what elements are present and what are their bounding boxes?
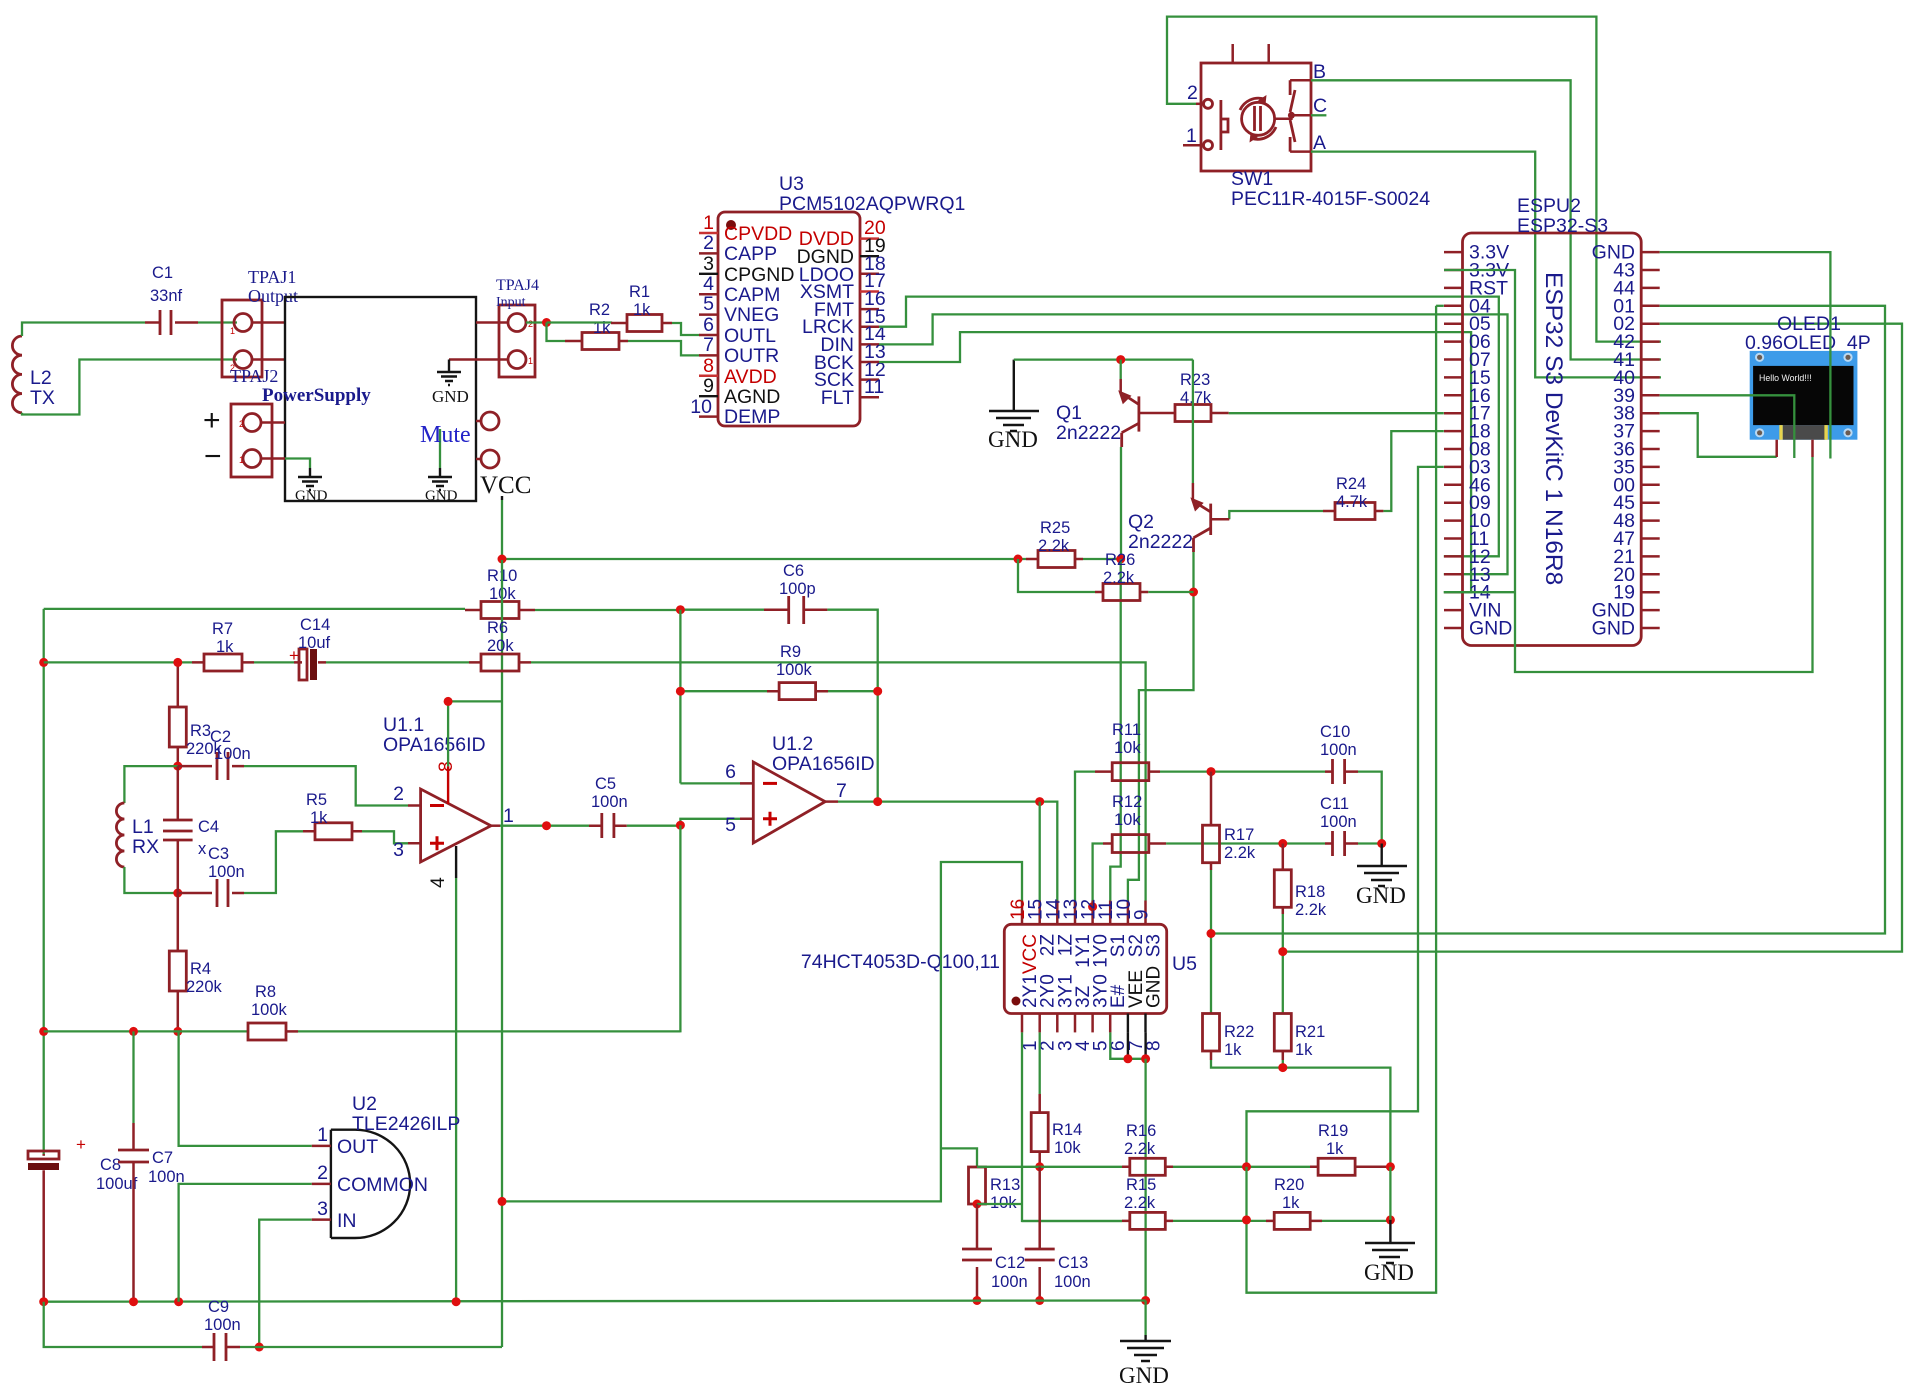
svg-text:FLT: FLT: [821, 387, 854, 409]
svg-text:TPAJ2: TPAJ2: [230, 366, 278, 386]
wire left trunk vertical (R10 row to C8): [43, 609, 45, 1156]
svg-text:1k: 1k: [633, 301, 651, 319]
ESP32 right pin 20: [1613, 564, 1659, 586]
U5 pin 2 2Y0: [1038, 974, 1059, 1051]
svg-text:OUTL: OUTL: [724, 325, 776, 347]
node dot TPAJ4/R2/R1: [542, 318, 551, 327]
SW1 pin B: [1290, 61, 1326, 83]
svg-text:2: 2: [703, 232, 714, 254]
svg-text:1: 1: [239, 455, 244, 465]
wire ESP32 pin 39 to OLED pin2: [1660, 395, 1795, 458]
wire R18 bottom to R21 top: [1282, 914, 1284, 1013]
U5 pin 11 S1: [1096, 900, 1129, 957]
inductor L1: [116, 803, 159, 867]
SW1 contact A: [1290, 120, 1295, 152]
U3 pin 15 LRCK: [802, 306, 886, 338]
ESP32 right pin 19: [1613, 582, 1659, 604]
svg-text:R21: R21: [1295, 1023, 1325, 1041]
svg-text:100n: 100n: [1320, 741, 1357, 759]
wire R16 right to R19: [1173, 1166, 1310, 1168]
ESP32 left pin 13: [1444, 564, 1491, 586]
svg-text:3: 3: [703, 253, 714, 275]
svg-text:1k: 1k: [1224, 1041, 1242, 1059]
wire R24 to ESP32 pin 18: [1383, 431, 1443, 511]
node R4 bottom R8 row: [173, 1027, 182, 1036]
svg-text:100n: 100n: [1054, 1273, 1091, 1291]
ESP32 right pin 44: [1613, 277, 1659, 299]
ESP32 right pin 37: [1613, 421, 1659, 443]
resistor R9: [680, 643, 877, 700]
ESP32 right pin 01: [1613, 295, 1659, 317]
svg-text:PowerSupply: PowerSupply: [262, 385, 371, 406]
resistor R5: [303, 791, 362, 840]
bottom rail: [44, 1301, 1146, 1302]
svg-text:TX: TX: [30, 387, 55, 409]
svg-text:R22: R22: [1224, 1023, 1254, 1041]
module box PowerSupply: [285, 297, 476, 501]
U5 pin 13 1Y1: [1061, 899, 1094, 968]
svg-text:CPVDD: CPVDD: [724, 223, 792, 245]
U3 pin 13 BCK: [814, 341, 886, 374]
ESP32 body: [1463, 195, 1642, 646]
node pin12 column: [1088, 902, 1097, 911]
ESP32 right pin 41: [1613, 349, 1659, 371]
svg-text:CAPM: CAPM: [724, 284, 780, 306]
wire R17 bottom to R22 top: [1210, 870, 1212, 1013]
svg-text:1k: 1k: [310, 809, 328, 827]
svg-text:COMMON: COMMON: [337, 1174, 428, 1196]
svg-text:GND: GND: [295, 488, 328, 504]
wire U1.2 out row to U5 pins 15/14: [838, 802, 1057, 901]
svg-text:R8: R8: [255, 983, 276, 1001]
capacitor C6: [680, 562, 827, 624]
node C3/C4 bottom row: [173, 889, 182, 898]
node left trunk R8 row: [39, 1027, 48, 1036]
capacitor C5: [589, 775, 628, 838]
wire ESP32 pin 03 to bottom node: [1247, 467, 1444, 1167]
wire Q2 collector down: [1128, 552, 1194, 901]
U3 pin 16 FMT: [814, 288, 886, 321]
wire U1.1 pin8 to VCC trunk: [448, 701, 502, 766]
svg-text:1: 1: [703, 212, 714, 234]
svg-text:S3: S3: [1144, 934, 1165, 957]
node pin15 branch: [1035, 797, 1044, 806]
node R17 bottom row: [1207, 929, 1216, 938]
svg-text:100p: 100p: [779, 580, 816, 598]
capacitor C14 polarized: [289, 616, 331, 680]
wire R13 bottom jog to R15 row: [977, 1203, 1022, 1205]
svg-text:C9: C9: [208, 1298, 229, 1316]
svg-text:100k: 100k: [251, 1001, 288, 1019]
wire R11 left to U5 pin13: [1075, 772, 1095, 901]
wire C2 right to U1.1 pin2: [244, 766, 408, 805]
node rail U1.1 pin4: [452, 1297, 461, 1306]
ESP32 right pin 42: [1613, 331, 1659, 353]
svg-text:5: 5: [703, 293, 714, 315]
wire R5 to U1.1 pin3: [362, 831, 408, 843]
U5 pin 1 2Y1: [1020, 974, 1041, 1051]
U3 pin 4 CAPM: [699, 273, 780, 306]
svg-text:PCM5102AQPWRQ1: PCM5102AQPWRQ1: [779, 193, 965, 215]
svg-text:C7: C7: [152, 1149, 173, 1167]
wire Q1 net down through R26/R11 to U5 pin 11: [1110, 559, 1120, 901]
svg-text:100n: 100n: [208, 863, 245, 881]
ESP32 right pin 36: [1613, 439, 1659, 461]
wire R15 row: [1022, 1220, 1122, 1221]
svg-text:AGND: AGND: [724, 386, 780, 408]
svg-text:U3: U3: [779, 173, 804, 195]
svg-text:GND: GND: [1469, 618, 1512, 640]
wire pin04 row: [1436, 305, 1444, 307]
svg-text:OPA1656ID: OPA1656ID: [383, 734, 486, 756]
OLED pin 1 stub: [1775, 440, 1778, 457]
svg-text:ESP32-S3: ESP32-S3: [1517, 215, 1608, 237]
capacitor C2: [178, 728, 251, 780]
U3 pin 7 OUTR: [699, 334, 779, 367]
ESP32 left pin 3.3V: [1444, 242, 1509, 264]
wire R23 to ESP32 pin17 and pin04 riser: [1229, 412, 1444, 414]
svg-text:20k: 20k: [487, 637, 514, 655]
wire R23 center vertical (GND rail to Q2 emitter): [1192, 360, 1194, 483]
svg-text:+: +: [76, 1135, 86, 1154]
wire R7 row: [44, 661, 192, 663]
node left trunk R7 row: [39, 658, 48, 667]
svg-text:R2: R2: [589, 301, 610, 319]
svg-text:GND: GND: [1356, 883, 1406, 908]
U5 pin 5 3Y0: [1091, 974, 1112, 1051]
wire LRCK trunk to ESP32 pin 12: [879, 297, 1499, 557]
svg-text:Mute: Mute: [420, 422, 471, 448]
U5 pin 10 S2: [1114, 899, 1147, 957]
svg-text:10k: 10k: [1114, 811, 1141, 829]
wire VCC trunk through R10/R6 down: [501, 560, 503, 1347]
svg-text:11: 11: [864, 376, 884, 398]
svg-text:VNEG: VNEG: [724, 304, 779, 326]
node VCC trunk bottom: [498, 1197, 507, 1206]
svg-text:C6: C6: [783, 562, 804, 580]
wire U1.1 out to C5: [500, 825, 589, 827]
wire E#/VEE/GND join: [1110, 1032, 1145, 1058]
capacitor C10: [1320, 723, 1358, 784]
wire ESP32 pin 01 to R17 node: [1211, 306, 1885, 934]
svg-text:R24: R24: [1336, 475, 1366, 493]
svg-text:ESP32 S3 DevKitC 1 N16R8: ESP32 S3 DevKitC 1 N16R8: [1540, 272, 1567, 585]
svg-text:6: 6: [725, 761, 736, 783]
SW1 rotary circle: [1240, 95, 1276, 143]
ESP32 right pin 35: [1613, 456, 1659, 478]
wire VCC row to R25: [502, 558, 1026, 560]
wire ESP32 3.3V#2 to OLED pin3 route: [1444, 270, 1813, 672]
wire pin15 branch down: [1039, 802, 1041, 901]
wire R6 right to U5 pin9 S3: [531, 662, 1146, 900]
svg-text:220k: 220k: [186, 978, 223, 996]
ESP32 left pin 12: [1444, 546, 1491, 568]
svg-text:U1.2: U1.2: [772, 733, 813, 755]
U3 pin 1 CPVDD: [699, 212, 792, 245]
svg-text:100uf: 100uf: [96, 1175, 138, 1193]
U3 pin 12 SCK: [814, 359, 886, 391]
wire TPAJ4 pin2 to node: [526, 321, 547, 323]
wire C9 to VCC trunk bottom: [240, 1346, 502, 1348]
svg-text:33nf: 33nf: [150, 287, 183, 305]
node Q1 emitter: [1116, 355, 1125, 364]
resistor R11: [1095, 721, 1160, 781]
capacitor C8 polarized: [28, 1135, 138, 1302]
U3 pin 20 DVDD: [799, 217, 886, 250]
wire SW1 A to ESP32 pin 40: [1311, 152, 1661, 378]
svg-text:1: 1: [230, 326, 235, 336]
svg-text:PEC11R-4015F-S0024: PEC11R-4015F-S0024: [1231, 188, 1430, 210]
U2 pin3 IN: [312, 1198, 357, 1232]
SW1 pin 2: [1187, 82, 1213, 108]
op-amp U1.2: [725, 733, 874, 843]
svg-text:2n2222: 2n2222: [1128, 531, 1193, 553]
resistor R18: [1274, 844, 1327, 920]
ESP32 right pin GND: [1592, 242, 1660, 264]
node R13 bottom: [973, 1200, 982, 1209]
svg-text:3: 3: [393, 839, 404, 861]
ground C11: [1356, 844, 1407, 909]
resistor R26: [1095, 551, 1148, 601]
SW1 C node dot: [1288, 112, 1295, 119]
node C9 right: [255, 1343, 264, 1352]
node C13 bottom rail: [1035, 1296, 1044, 1305]
resistor R12: [1103, 793, 1166, 853]
node R25 left: [1014, 555, 1023, 564]
node R16/R19: [1242, 1162, 1251, 1171]
wire BCK trunk to ESP32 pin 14: [879, 332, 1471, 592]
wire L1 bottom to C3 row: [124, 867, 177, 893]
capacitor C4: [163, 766, 219, 893]
node R17 top: [1207, 767, 1216, 776]
svg-text:1k: 1k: [216, 638, 234, 656]
wire GND rail to Q1 emitter and Q2 emitter column: [1014, 358, 1193, 360]
ESP32 right pin 38: [1613, 403, 1659, 425]
svg-text:R20: R20: [1274, 1176, 1304, 1194]
svg-text:10: 10: [690, 396, 712, 418]
svg-text:OUTR: OUTR: [724, 345, 779, 367]
SW1 pin C: [1291, 95, 1327, 117]
resistor R3: [169, 662, 222, 766]
svg-text:C2: C2: [210, 728, 231, 746]
svg-text:C4: C4: [198, 818, 219, 836]
resistor R8: [248, 983, 298, 1040]
switch SW1 body: [1201, 44, 1311, 171]
wire C1 to TPAJ1 pin1: [198, 321, 237, 323]
svg-text:+: +: [203, 404, 221, 437]
svg-text:4: 4: [703, 273, 714, 295]
wire R13 top to VCC riser: [941, 1148, 977, 1167]
svg-text:C8: C8: [100, 1156, 121, 1174]
ESP32 right pin 02: [1613, 313, 1659, 335]
svg-text:8: 8: [703, 355, 714, 377]
svg-text:TPAJ1: TPAJ1: [248, 267, 296, 287]
resistor R17: [1203, 772, 1256, 870]
svg-text:2: 2: [393, 783, 404, 805]
resistor R2: [565, 301, 628, 350]
wire ESP32 pin 38 to OLED pin1: [1660, 413, 1777, 457]
node R20 right: [1386, 1215, 1395, 1224]
connector TPAJ2: [230, 366, 371, 477]
node R9 left: [676, 687, 685, 696]
Mute pad lower: [420, 422, 499, 468]
ESP32 left pin 46: [1444, 474, 1491, 496]
SW1 pin 1: [1183, 125, 1213, 150]
svg-text:C12: C12: [995, 1254, 1025, 1272]
U3 pin 19 DGND: [797, 235, 886, 268]
node U1.1 out: [542, 821, 551, 830]
svg-text:R25: R25: [1040, 519, 1070, 537]
resistor R21: [1274, 1013, 1325, 1060]
U5 pin 3 3Y1: [1055, 974, 1076, 1051]
ground near Q1: [988, 360, 1039, 452]
svg-text:2.2k: 2.2k: [1038, 537, 1070, 555]
wire C3 right to R5: [244, 831, 303, 893]
wire Q1 collector down to R25 node: [1120, 447, 1122, 559]
svg-text:R4: R4: [190, 960, 211, 978]
node VCC row start: [498, 555, 507, 564]
ESP32 left pin 06: [1444, 331, 1491, 353]
svg-text:7: 7: [703, 334, 714, 356]
wire ESP32 pin 14 row extension: [1444, 591, 1515, 593]
resistor R13: [969, 1167, 1021, 1212]
ESP32 left pin 17: [1444, 403, 1491, 425]
capacitor C9: [202, 1298, 241, 1361]
resistor R20: [1266, 1176, 1322, 1229]
svg-text:2n2222: 2n2222: [1056, 422, 1121, 444]
U3 pin 8 AVDD: [699, 355, 777, 388]
svg-text:100n: 100n: [591, 793, 628, 811]
svg-text:C14: C14: [300, 616, 330, 634]
wire column to U1.2 pin6: [680, 782, 740, 784]
U3 pin 17 XSMT: [800, 270, 886, 303]
node R21 bottom: [1278, 1063, 1287, 1072]
wire C5 to U1.2 pin5 node: [627, 819, 740, 826]
svg-text:R16: R16: [1126, 1122, 1156, 1140]
wire R10 right to C6 node: [535, 609, 680, 611]
svg-text:R26: R26: [1105, 551, 1135, 569]
wire R11 right to C10: [1160, 770, 1325, 772]
svg-text:GND: GND: [425, 488, 458, 504]
svg-text:GND: GND: [1364, 1260, 1414, 1285]
node C7 col on R8 row: [129, 1027, 138, 1036]
wire R16 row: [977, 1166, 1122, 1168]
ESP32 right pin 45: [1613, 492, 1659, 514]
ground right inside module: [425, 429, 458, 504]
svg-text:6: 6: [703, 314, 714, 336]
wire Q2 base from R24: [1211, 511, 1323, 519]
node R15/R20: [1242, 1215, 1251, 1224]
wire C11 right: [1358, 842, 1382, 844]
U3 pin 5 VNEG: [699, 293, 779, 326]
wire R8 row: [44, 1030, 248, 1032]
wire R15 right to R20: [1173, 1220, 1266, 1222]
svg-text:R17: R17: [1224, 826, 1254, 844]
svg-text:2.2k: 2.2k: [1124, 1194, 1156, 1212]
svg-text:4.7k: 4.7k: [1336, 493, 1368, 511]
node R3 top on R7 row: [173, 658, 182, 667]
svg-text:Q2: Q2: [1128, 511, 1154, 533]
ground R20: [1364, 1220, 1415, 1285]
svg-text:74HCT4053D-Q100,11: 74HCT4053D-Q100,11: [801, 951, 1000, 973]
svg-text:R23: R23: [1180, 371, 1210, 389]
ground bottom center: [1119, 1301, 1171, 1389]
svg-text:2: 2: [528, 319, 533, 329]
wire R8 to U1.2 pin5 riser: [298, 1030, 680, 1032]
ESP32 right pin GND: [1592, 618, 1660, 640]
ground at TPAJ4 pin1: [432, 360, 469, 407]
svg-text:R6: R6: [487, 619, 508, 637]
node C10/C11 gnd: [1377, 839, 1386, 848]
resistor R25: [1026, 519, 1083, 568]
U5 pin 4 3Z: [1073, 985, 1094, 1051]
wire COMMON to rail: [179, 1184, 312, 1302]
node C6 left: [676, 605, 685, 614]
ESP32 right pin 39: [1613, 385, 1659, 407]
node E#/VEE: [1123, 1054, 1132, 1063]
svg-text:R5: R5: [306, 791, 327, 809]
ESP32 left pin 05: [1444, 313, 1491, 335]
node R9 right: [873, 687, 882, 696]
OLED pin 3 stub: [1811, 440, 1814, 457]
wire C6 left column down: [679, 610, 681, 784]
svg-text:100k: 100k: [776, 661, 813, 679]
svg-text:CPGND: CPGND: [724, 264, 794, 286]
SW1 pushbutton bar: [1221, 100, 1228, 150]
svg-text:4.7k: 4.7k: [1180, 389, 1212, 407]
wire vertical pin04 riser down to R15 node: [1247, 306, 1437, 1293]
svg-text:9: 9: [1132, 909, 1153, 920]
capacitor C7: [118, 1031, 185, 1301]
resistor R4: [169, 893, 222, 1031]
svg-text:10k: 10k: [1054, 1139, 1081, 1157]
wire U5 VCC pin16 to VCC riser: [502, 862, 1022, 1201]
wire L2 top to C1: [22, 323, 145, 337]
svg-text:10k: 10k: [1114, 739, 1141, 757]
U3 pin 14 DIN: [820, 323, 885, 356]
ESP32 left pin 14: [1444, 582, 1491, 604]
ESP32 left pin RST: [1444, 277, 1508, 299]
U5 pin 14 1Z: [1043, 898, 1076, 956]
wire to L1 top: [124, 766, 177, 803]
svg-text:R11: R11: [1112, 721, 1141, 739]
resistor R6: [469, 619, 531, 671]
U5 pin 6 E#: [1108, 984, 1129, 1051]
svg-text:C5: C5: [595, 775, 616, 793]
wire Q1 base to R23: [1139, 412, 1163, 415]
U5 body: [801, 924, 1197, 1013]
svg-text:C: C: [1313, 95, 1327, 117]
capacitor C13: [1025, 1167, 1091, 1301]
ESP32 right pin 43: [1613, 260, 1659, 282]
svg-text:C13: C13: [1058, 1254, 1088, 1272]
wire C14 to R6: [326, 661, 469, 663]
svg-text:Hello World!!!: Hello World!!!: [1759, 373, 1812, 383]
svg-text:1: 1: [1186, 125, 1197, 147]
svg-text:DEMP: DEMP: [724, 406, 780, 428]
node C5 right: [676, 821, 685, 830]
node R18 top: [1278, 839, 1287, 848]
svg-text:100n: 100n: [214, 745, 251, 763]
svg-text:GND: GND: [1592, 618, 1635, 640]
IC U2 TLE2426: [331, 1093, 461, 1238]
svg-text:4: 4: [427, 877, 449, 888]
svg-text:Q1: Q1: [1056, 402, 1082, 424]
svg-text:R14: R14: [1052, 1121, 1082, 1139]
wire node to R2: [547, 323, 566, 342]
svg-text:C11: C11: [1320, 795, 1349, 813]
inductor L2: [12, 336, 55, 413]
